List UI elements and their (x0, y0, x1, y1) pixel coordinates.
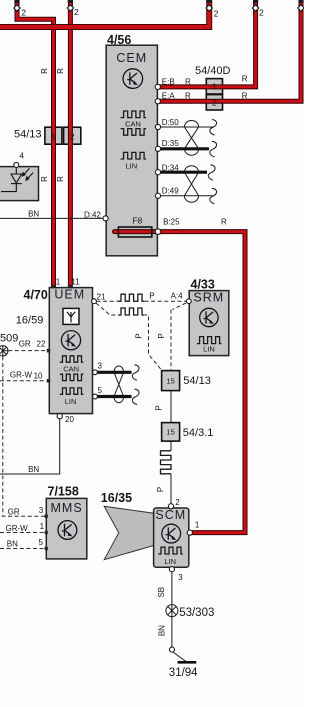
SCM pin 1 (187, 530, 192, 535)
UEM pin 1 square (51, 285, 55, 288)
svg-text:R: R (40, 176, 49, 182)
CEM pin D:50 (155, 124, 160, 129)
svg-text:CEM: CEM (116, 51, 147, 65)
svg-text:31/94: 31/94 (169, 667, 198, 679)
MMS clock icon (58, 521, 77, 540)
svg-text:15: 15 (166, 376, 174, 385)
svg-text:11: 11 (71, 278, 80, 287)
MMS pin 1 square (45, 531, 48, 534)
wire end hook D:34 (208, 165, 215, 181)
svg-text:P: P (157, 333, 166, 338)
CEM pin E:B (155, 84, 160, 89)
CEM pin D:49 (155, 193, 160, 198)
SCM pin 3 (169, 567, 174, 572)
svg-text:GR-W: GR-W (10, 371, 33, 380)
waveform on P-bus line 1 (118, 294, 144, 301)
wire D:50 (160, 126, 213, 128)
svg-text:1: 1 (195, 521, 200, 530)
svg-text:15: 15 (166, 428, 174, 437)
svg-text:4/56: 4/56 (107, 33, 131, 47)
svg-text:LIN: LIN (203, 345, 215, 354)
svg-text:R: R (242, 75, 248, 84)
wire end hook UEM pin 5 (132, 389, 139, 405)
svg-text:LIN: LIN (65, 397, 77, 406)
junction diamond node 2 (E:B) (252, 5, 258, 11)
wire red battery feed 1 (top left to UEM pin 1) (17, 0, 54, 288)
wire UEM pin 5 (twisted pair) (97, 395, 132, 398)
connector 54/3.1 pin 15 box (162, 423, 180, 442)
svg-text:LIN: LIN (125, 161, 137, 170)
svg-text:10: 10 (34, 372, 43, 381)
SRM control module 4/33 box (189, 291, 229, 356)
svg-text:5: 5 (39, 538, 44, 547)
svg-text:MMS: MMS (51, 501, 83, 515)
MMS pin 3 square (45, 515, 48, 518)
wire cap stubs at top edge (14, 0, 19, 3)
svg-text:2: 2 (259, 7, 264, 17)
svg-text:R: R (56, 68, 65, 74)
UEM pin 10 square (47, 379, 50, 383)
svg-text:SRM: SRM (193, 291, 224, 305)
svg-text:53/303: 53/303 (179, 607, 214, 619)
svg-text:BN: BN (28, 209, 39, 218)
UEM pin 21 (92, 299, 97, 304)
UEM control module 4/70 box (49, 288, 92, 414)
svg-text:54/3.1: 54/3.1 (183, 427, 214, 439)
svg-text:4/33: 4/33 (191, 277, 215, 291)
svg-text:20: 20 (65, 415, 74, 424)
svg-text:2: 2 (212, 98, 217, 108)
junction diamond node 2 (bus) (206, 5, 212, 11)
svg-text:F8: F8 (132, 216, 142, 226)
svg-text:R: R (242, 92, 248, 101)
LED photodiode symbol (1, 167, 33, 191)
SRM LIN waveform (197, 337, 222, 344)
svg-text:SCM: SCM (155, 508, 186, 522)
svg-text:54/13: 54/13 (183, 375, 211, 387)
CEM pin E:A (155, 99, 160, 104)
twisted pair symbol UEM pins 3/5 (114, 366, 124, 403)
twisted pair symbol D:34/D:49 (184, 166, 198, 203)
vertical waveform on P-bus below 54/3.1 (161, 451, 172, 474)
svg-text:LIN: LIN (164, 557, 176, 566)
wire end hook D:49 (210, 188, 217, 204)
connector 54/13 cell 1 (45, 127, 62, 144)
wire BN from UEM pin 20 to left edge (0, 419, 60, 474)
wire red E:B CEM to 54/40D pin 1 and up (158, 0, 256, 87)
svg-text:E:A: E:A (162, 92, 176, 101)
wire red main bus (left edge to top junction) (0, 0, 209, 27)
svg-text:2: 2 (70, 132, 75, 142)
svg-text:21: 21 (97, 293, 106, 302)
CEM pin D:35 (155, 146, 160, 151)
svg-text:16/35: 16/35 (101, 491, 132, 505)
wire BN D:42 (left edge to CEM) (0, 217, 104, 219)
svg-text:BN: BN (157, 625, 166, 636)
svg-text:22: 22 (37, 340, 46, 349)
UEM CAN waveform upper (60, 356, 84, 362)
junction diamond node 2 (wire 2) (67, 5, 73, 11)
SCM pin 2 (168, 504, 173, 509)
wire dashed GR-W to UEM pin 10 (0, 380, 47, 382)
wire dashed P-bus UEM pin 21 to SRM pin A:4 (97, 300, 187, 302)
light sensor pin 4 (14, 162, 19, 167)
svg-text:A:4: A:4 (171, 292, 184, 301)
svg-text:4/70: 4/70 (24, 288, 48, 302)
wire end hook D:35 (210, 141, 217, 157)
wire red B:25 through fuse F8 down to SCM pin 1 (115, 232, 246, 533)
wire P-bus 54/13 to 54/3.1 (170, 391, 172, 423)
ground symbol 31/94 (178, 661, 197, 664)
UEM pin 20 (57, 414, 62, 419)
svg-text:1: 1 (212, 82, 217, 92)
light sensor box with LED (0, 167, 39, 201)
svg-text:B:25: B:25 (163, 217, 180, 226)
wire UEM pin 3 (twisted pair) (97, 371, 132, 374)
wire to ground 31/94 (172, 652, 185, 662)
svg-text:D:49: D:49 (162, 187, 179, 196)
waveform on P-bus line 2 (118, 308, 144, 315)
CEM clock icon (123, 69, 143, 89)
antenna connection point 509 (0, 346, 8, 356)
svg-text:54/40D: 54/40D (195, 65, 231, 77)
wire red battery feed 2 (top to UEM pin 11) (68, 0, 73, 288)
UEM pin 3 (93, 370, 98, 375)
wire dashed BN to MMS pin 5 (0, 548, 45, 550)
wire D:34 (twisted pair) (159, 171, 207, 174)
svg-text:D:35: D:35 (162, 139, 179, 148)
CEM pin D:42 (103, 216, 108, 221)
wire dashed GR from 509 to UEM pin 22 (8, 350, 46, 352)
svg-text:509: 509 (0, 333, 18, 345)
CEM pin B:25 (155, 229, 161, 235)
svg-text:1: 1 (51, 132, 56, 142)
wire dashed vertical from 509 down to MMS pin 3 (3, 356, 45, 516)
twisted pair symbol D:50/D:35 (184, 120, 198, 155)
wire end hook D:50 (210, 120, 217, 136)
svg-text:SB: SB (157, 587, 166, 598)
svg-text:R: R (221, 217, 227, 226)
svg-text:2: 2 (175, 498, 180, 507)
ground connection pin (170, 647, 175, 652)
CEM CAN waveform upper (121, 111, 147, 118)
svg-text:16/59: 16/59 (16, 315, 44, 327)
UEM antenna icon (63, 308, 79, 324)
UEM LIN waveform (60, 388, 84, 394)
SCM clock icon (162, 524, 181, 543)
svg-text:GR: GR (19, 339, 31, 348)
UEM pin 5 (93, 394, 98, 399)
CEM control module 4/56 box (106, 45, 157, 256)
connector 54/13 cell 2 (64, 127, 81, 144)
junction diamond node 2 (wire 1) (14, 5, 20, 11)
svg-text:P: P (135, 333, 144, 338)
wire D:35 (twisted pair) (159, 147, 209, 150)
svg-text:54/13: 54/13 (14, 129, 42, 141)
svg-text:E:B: E:B (162, 77, 175, 86)
siren arrow symbol 16/35 (104, 506, 154, 559)
svg-text:P: P (155, 405, 164, 410)
SRM clock icon (200, 308, 218, 326)
UEM CAN waveform lower (inverted) (60, 374, 84, 380)
svg-text:1: 1 (56, 278, 61, 287)
svg-text:R: R (56, 176, 65, 182)
svg-text:2: 2 (74, 7, 79, 17)
wire dashed P-bus branch from SRM A:4 down to 54/13 (171, 303, 186, 371)
svg-text:D:50: D:50 (162, 118, 179, 127)
svg-text:GR-W: GR-W (6, 524, 29, 533)
UEM clock icon (61, 331, 80, 350)
svg-text:BN: BN (7, 540, 18, 549)
svg-text:R: R (185, 92, 191, 101)
svg-text:R: R (185, 77, 191, 86)
SCM LIN waveform (158, 547, 183, 554)
svg-text:P: P (149, 292, 154, 301)
connector 54/40D cell 1 (206, 79, 222, 94)
wire end hook UEM pin 3 (132, 365, 139, 381)
svg-text:7/158: 7/158 (48, 484, 79, 498)
UEM pin 11 square (68, 285, 72, 288)
svg-text:3: 3 (39, 506, 44, 515)
svg-text:P: P (156, 487, 165, 492)
svg-text:3: 3 (98, 362, 103, 371)
MMS pin 5 square (45, 547, 48, 550)
svg-text:4: 4 (19, 151, 24, 161)
svg-text:2: 2 (214, 8, 219, 18)
wire P-bus 54/3.1 to SCM pin 2 (170, 441, 172, 504)
svg-text:R: R (40, 68, 49, 74)
wire BN from splice to ground (171, 616, 173, 647)
svg-text:UEM: UEM (54, 288, 85, 302)
svg-text:D:34: D:34 (162, 163, 179, 172)
svg-text:CAN: CAN (63, 365, 79, 374)
wire D:49 (160, 195, 213, 197)
splice 53/303 symbol (166, 605, 178, 617)
CEM CAN waveform lower (inverted) (121, 129, 147, 136)
SCM control module 16/35 box (154, 508, 189, 567)
MMS control module 7/158 box (46, 498, 87, 559)
connector 54/40D cell 2 (206, 95, 222, 110)
junction diamond node (E:A) (298, 5, 304, 11)
CEM pin D:34 (155, 170, 160, 175)
SRM pin A:4 (186, 299, 191, 304)
connector 54/13 pin 15 box (162, 371, 180, 391)
UEM pin 22 square (47, 349, 50, 353)
svg-text:3: 3 (178, 573, 183, 582)
CEM LIN waveform (121, 152, 147, 159)
svg-text:5: 5 (98, 386, 103, 395)
wire dashed GR-W to MMS pin 1 (0, 532, 45, 534)
wire SB from SCM pin 3 to splice 53/303 (171, 572, 173, 605)
wire dashed P-bus branch from UEM pin 21 down to 54/13 (96, 303, 162, 371)
wire red E:A CEM to 54/40D pin 2 and up (158, 0, 301, 101)
svg-text:GR: GR (8, 507, 20, 516)
svg-text:D:42: D:42 (84, 211, 101, 220)
svg-text:2: 2 (21, 7, 26, 17)
svg-text:CAN: CAN (125, 120, 141, 129)
svg-text:1: 1 (40, 522, 45, 531)
fuse F8 (118, 227, 151, 237)
svg-text:BN: BN (28, 465, 39, 474)
